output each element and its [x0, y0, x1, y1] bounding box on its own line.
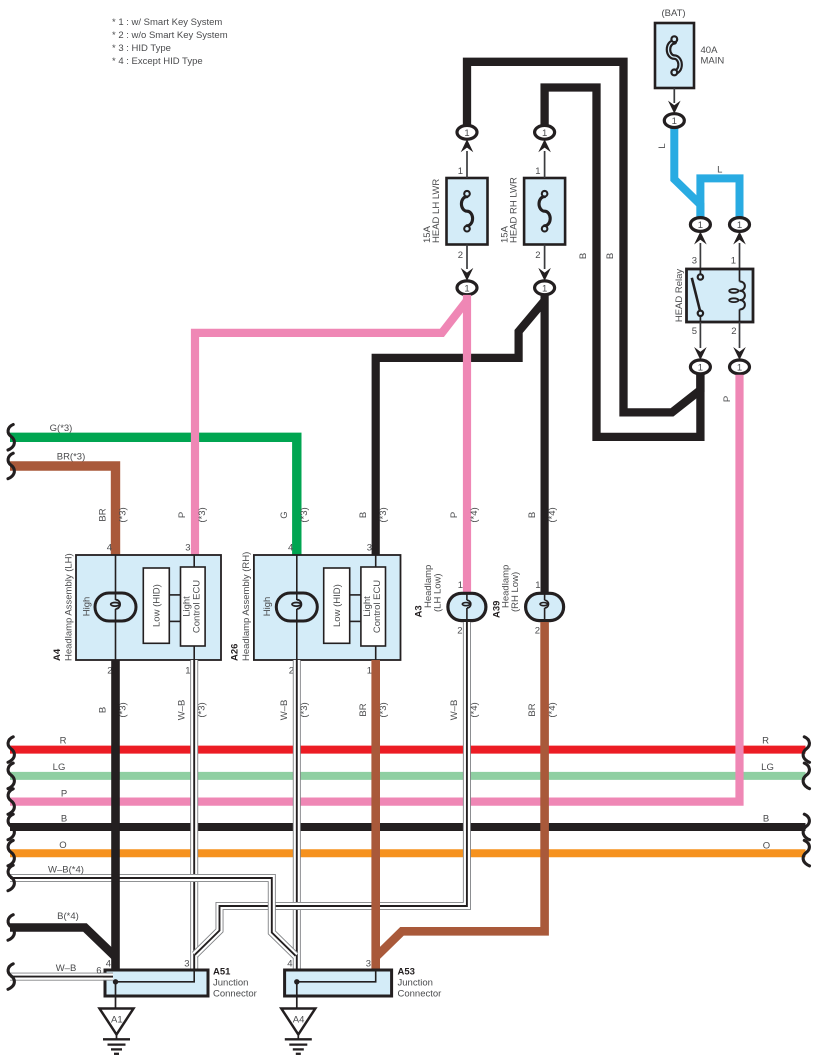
wire L from 40A fuse to relay pins — [674, 127, 700, 218]
junction connector A53 — [285, 970, 392, 996]
svg-text:* 4 : Except HID Type: * 4 : Except HID Type — [112, 56, 203, 67]
wire B from relay pin5 to LH fuse top (via x=626 riser) — [467, 62, 700, 413]
svg-text:L: L — [657, 143, 668, 148]
wire P(*3)/P(*4) from LH fuse node down to A3 pin 1 — [463, 295, 471, 594]
svg-text:W–B(*4): W–B(*4) — [48, 865, 84, 876]
svg-text:G(*3): G(*3) — [50, 423, 73, 434]
svg-text:HEAD RH LWR: HEAD RH LWR — [508, 177, 519, 243]
svg-text:Low (HID): Low (HID) — [152, 584, 163, 627]
wire BR(*3) A26 pin1 to A53 pin3 — [371, 660, 380, 970]
svg-text:* 1 : w/ Smart Key System: * 1 : w/ Smart Key System — [112, 17, 222, 28]
junction dot A51 — [113, 979, 118, 984]
svg-text:(*3): (*3) — [299, 507, 310, 522]
break squiggle G — [8, 425, 14, 451]
bus R — [10, 746, 806, 754]
svg-text:(*4): (*4) — [547, 507, 558, 522]
wire relay pin5 down — [699, 322, 701, 348]
svg-text:Junction: Junction — [398, 978, 433, 989]
svg-text:Headlamp Assembly (LH): Headlamp Assembly (LH) — [63, 553, 74, 661]
svg-text:(*3): (*3) — [118, 507, 129, 522]
svg-text:A1: A1 — [111, 1015, 123, 1026]
node 1 above RH fuse — [535, 125, 555, 139]
arrow into node above RH fuse — [538, 139, 551, 152]
svg-text:3: 3 — [184, 959, 189, 970]
wire W-B from left edge to A51 pin6 — [10, 973, 113, 981]
wire W-B(*4) A3 pin2 to A51 pin3 — [195, 622, 467, 955]
bus P and wire P from relay pin2 — [10, 375, 740, 802]
svg-text:W–B: W–B — [176, 700, 187, 721]
arrow into node below relay pin5 — [694, 347, 707, 360]
svg-text:1: 1 — [535, 166, 540, 177]
svg-text:* 2 : w/o Smart Key System: * 2 : w/o Smart Key System — [112, 30, 228, 41]
svg-text:P: P — [722, 396, 733, 402]
wire G(*3) from left edge to A26 pin 4 — [10, 437, 297, 555]
svg-text:A26: A26 — [230, 644, 241, 661]
wire BR(*3) from left edge to A4 pin 4 — [10, 466, 116, 555]
node 1 below relay pin5 — [690, 360, 710, 374]
bus W-B(*4) from left edge to A53 pin4 — [10, 878, 296, 956]
svg-text:3: 3 — [366, 959, 371, 970]
headlamp assembly LH box A4 — [76, 555, 221, 660]
svg-text:4: 4 — [106, 959, 111, 970]
svg-text:A53: A53 — [398, 967, 415, 978]
svg-text:1: 1 — [458, 166, 463, 177]
svg-text:* 3 : HID Type: * 3 : HID Type — [112, 43, 171, 54]
svg-text:B: B — [605, 253, 616, 259]
relay HEAD Relay box — [687, 269, 754, 322]
wire B(*4) from left edge merging at A51 pin4 — [10, 928, 116, 958]
fuse 15A HEAD RH LWR — [524, 178, 565, 245]
wire B from relay pin5 to RH fuse top (via x=597.7 riser) — [545, 88, 701, 437]
svg-text:2: 2 — [458, 250, 463, 261]
svg-text:1: 1 — [367, 666, 372, 677]
wire relay pin2 down — [739, 322, 741, 348]
wire W-B inside A51 to junction dot — [103, 973, 113, 981]
svg-text:O: O — [763, 841, 770, 852]
svg-text:2: 2 — [731, 326, 736, 337]
svg-text:HEAD Relay: HEAD Relay — [674, 269, 685, 323]
svg-text:4: 4 — [287, 959, 292, 970]
bus LG — [10, 772, 806, 780]
svg-text:(*3): (*3) — [378, 507, 389, 522]
wire W-B(*3) A26 pin2 to A53 pin4 — [293, 660, 301, 970]
arrow into node above relay pin 3 — [694, 232, 707, 245]
svg-text:W–B: W–B — [279, 700, 290, 721]
wire from 40A fuse down — [673, 88, 675, 103]
ground A1 — [100, 982, 134, 1054]
node 1 below 40A fuse — [664, 114, 684, 128]
bus O — [10, 849, 806, 857]
svg-text:A4: A4 — [293, 1015, 305, 1026]
wire B(*3) from RH fuse node down to A39 pin 1 — [540, 295, 548, 594]
node 1 below RH fuse — [535, 281, 555, 295]
fuse 40A MAIN box — [655, 23, 694, 88]
svg-text:BR: BR — [358, 703, 369, 716]
svg-text:4: 4 — [288, 543, 293, 554]
svg-text:2: 2 — [535, 626, 540, 637]
headlamp A3 (LH Low) connector — [448, 593, 486, 620]
wire B(*3) branch to A26 pin 3 — [376, 301, 545, 556]
arrow into node above relay pin 1 — [733, 232, 746, 245]
junction connector A51 — [105, 970, 208, 996]
break squiggle BR — [8, 453, 14, 479]
svg-text:P: P — [177, 512, 188, 518]
svg-text:(*4): (*4) — [469, 507, 480, 522]
node 1 above LH fuse — [457, 125, 477, 139]
pin 1 LH fuse — [466, 151, 468, 178]
svg-text:2: 2 — [535, 250, 540, 261]
svg-text:40A: 40A — [701, 45, 719, 56]
svg-text:R: R — [60, 735, 67, 746]
svg-text:B: B — [763, 814, 769, 825]
bus B — [10, 823, 806, 831]
svg-text:2: 2 — [457, 626, 462, 637]
svg-text:Junction: Junction — [213, 978, 248, 989]
svg-text:A51: A51 — [213, 967, 231, 978]
wire to relay pin 1 — [739, 243, 741, 269]
svg-text:6: 6 — [96, 966, 101, 977]
svg-text:W–B: W–B — [56, 963, 77, 974]
svg-text:5: 5 — [692, 326, 697, 337]
svg-text:(LH Low): (LH Low) — [432, 573, 443, 612]
svg-text:(BAT): (BAT) — [661, 8, 685, 19]
svg-text:P: P — [61, 788, 67, 799]
svg-text:Control ECU: Control ECU — [372, 580, 383, 633]
pin 1 RH fuse — [544, 151, 546, 178]
arrow into node below RH fuse — [538, 268, 551, 281]
node 1 above relay pin 3 — [690, 218, 710, 232]
svg-text:L: L — [717, 165, 722, 176]
arrow into node below relay pin2 — [733, 347, 746, 360]
wire P(*3) branch to A4 pin 3 — [195, 301, 467, 556]
pin 2 LH fuse — [466, 245, 468, 270]
svg-text:High: High — [81, 597, 92, 617]
wire W-B(*3) A4 pin1 to A51 pin3 — [190, 660, 198, 970]
svg-text:B(*4): B(*4) — [57, 911, 79, 922]
svg-text:Headlamp Assembly (RH): Headlamp Assembly (RH) — [241, 552, 252, 661]
svg-text:High: High — [262, 597, 273, 617]
arrow into node above LH fuse — [461, 139, 474, 152]
node 1 below relay pin2 — [730, 360, 750, 374]
headlamp A39 (RH Low) connector — [526, 593, 564, 620]
svg-text:R: R — [762, 735, 769, 746]
svg-text:1: 1 — [458, 580, 463, 591]
svg-text:Low (HID): Low (HID) — [332, 584, 343, 627]
arrow into connector below 40A fuse — [668, 101, 681, 114]
svg-text:LG: LG — [53, 762, 66, 773]
svg-text:B: B — [98, 707, 109, 713]
svg-text:B: B — [527, 512, 538, 518]
node 1 above relay pin 1 — [730, 218, 750, 232]
wire BR(*4) A39 pin2 merging at A53 pin3 — [376, 622, 545, 957]
node 1 below LH fuse — [457, 281, 477, 295]
svg-text:1: 1 — [731, 256, 736, 267]
svg-text:LG: LG — [761, 762, 774, 773]
svg-text:Connector: Connector — [398, 989, 442, 1000]
svg-text:B: B — [578, 253, 589, 259]
svg-text:4: 4 — [107, 543, 112, 554]
ground A4 — [281, 982, 315, 1054]
svg-text:P: P — [449, 512, 460, 518]
svg-text:Control ECU: Control ECU — [192, 580, 203, 633]
legend notes — [112, 17, 228, 67]
pin 2 RH fuse — [544, 245, 546, 270]
svg-text:O: O — [59, 840, 66, 851]
svg-text:G: G — [279, 511, 290, 518]
svg-text:MAIN: MAIN — [701, 56, 725, 67]
wire B(*3) A4 pin2 to A51 pin4 — [111, 660, 120, 970]
fuse 15A HEAD LH LWR — [447, 178, 488, 245]
svg-text:B: B — [61, 814, 67, 825]
svg-text:3: 3 — [692, 256, 697, 267]
svg-text:BR: BR — [527, 703, 538, 716]
svg-text:B: B — [358, 512, 369, 518]
svg-text:W–B: W–B — [449, 700, 460, 721]
svg-text:(*3): (*3) — [197, 507, 208, 522]
svg-text:3: 3 — [185, 543, 190, 554]
wire to relay pin 3 — [699, 243, 701, 269]
svg-text:BR(*3): BR(*3) — [57, 452, 86, 463]
svg-text:A4: A4 — [52, 648, 63, 661]
headlamp assembly RH box A26 — [254, 555, 401, 660]
svg-text:1: 1 — [535, 580, 540, 591]
svg-text:(RH Low): (RH Low) — [510, 572, 521, 612]
arrow into node below LH fuse — [461, 268, 474, 281]
svg-text:Connector: Connector — [213, 989, 257, 1000]
svg-text:BR: BR — [98, 508, 109, 521]
svg-text:1: 1 — [185, 666, 190, 677]
svg-text:3: 3 — [367, 543, 372, 554]
svg-text:HEAD LH LWR: HEAD LH LWR — [431, 179, 442, 243]
